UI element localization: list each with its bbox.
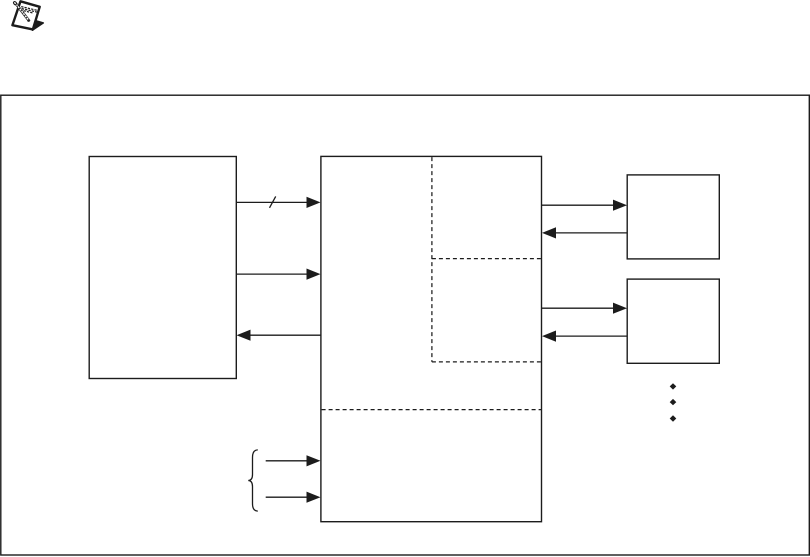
wire arrow 9 (brace input bottom to center box) [266, 492, 321, 503]
ellipsis diamond 2 [670, 399, 677, 405]
wire arrow 2 (left box to center box) [236, 269, 320, 280]
wire arrow 4 (center box to right box 1) [542, 200, 627, 211]
right box 2 [627, 279, 719, 363]
ellipsis diamond 3 [670, 415, 677, 421]
wire arrow 8 (brace input top to center box) [266, 455, 321, 466]
dashed horizontal divider 1 [432, 258, 541, 260]
wire arrow 6 (center box to right box 2) [542, 303, 627, 314]
note icon [12, 1, 43, 30]
right box 1 [627, 175, 719, 259]
wire arrow 1 (left box to center box, with slash) [236, 196, 320, 208]
dashed horizontal divider 2 [432, 361, 541, 363]
wire arrow 5 (right box 1 to center box) [542, 227, 627, 238]
ellipsis diamond 1 [670, 383, 677, 389]
dashed horizontal divider 3 [322, 409, 542, 411]
brace [248, 450, 257, 511]
wire arrow 7 (right box 2 to center box) [542, 331, 627, 342]
center box [321, 156, 542, 521]
left box [89, 157, 236, 379]
dashed vertical divider [431, 157, 433, 362]
wire arrow 3 (center box to left box) [237, 330, 321, 341]
